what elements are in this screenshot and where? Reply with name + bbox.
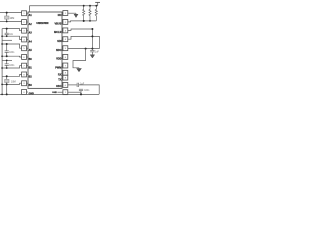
connector pin L5 [22, 46, 27, 51]
svg-text:VDD: VDD [56, 58, 61, 61]
right connector pin boxes [62, 11, 68, 95]
resistor RP1 [83, 6, 85, 21]
svg-text:SDO: SDO [56, 49, 61, 52]
resistor R2 bottom-left [6, 76, 8, 79]
capacitor C2 left [6, 44, 8, 51]
dots pullup rails [83, 5, 98, 22]
svg-text:10M: 10M [11, 81, 16, 84]
svg-text:UNKNOWN: UNKNOWN [36, 23, 48, 25]
capacitor C4 decoupling [91, 49, 93, 51]
power VCC bar [97, 2, 99, 5]
connector pin L3 [22, 28, 27, 33]
connector pin R11 [63, 90, 68, 95]
wire gnd loop from R5 rail [73, 49, 86, 68]
ground symbol loop [77, 68, 81, 72]
connector pin R10 [63, 82, 68, 87]
pin numbers left boxes [23, 13, 25, 94]
connector pin L10 [22, 90, 27, 95]
svg-text:TX: TX [58, 78, 62, 81]
svg-text:100n: 100n [9, 52, 15, 54]
capacitor C3 left [6, 60, 8, 64]
connector pin R3 [63, 28, 68, 33]
capacitor C6 [79, 88, 83, 90]
svg-text:SDI: SDI [57, 40, 61, 43]
wire R3 row [68, 29, 93, 49]
IC left pin labels [29, 14, 35, 96]
ground below C4 [90, 55, 94, 58]
wire top rail VCC net [30, 6, 98, 12]
svg-text:10M: 10M [10, 17, 15, 20]
wire R1 row to ground arrow [68, 12, 76, 14]
IC right pin labels [54, 14, 62, 88]
svg-text:NC: NC [58, 14, 62, 17]
resistor RP2 [89, 6, 91, 21]
svg-text:OSC: OSC [56, 85, 62, 88]
capacitor C1 left [6, 29, 8, 34]
wire bottom rail GND net [0, 93, 99, 95]
connector pin L7 [22, 63, 27, 68]
wire R9 row with series capacitor C5 [68, 84, 77, 86]
connector pin L8 [22, 72, 27, 77]
wire R2 pullup rail [68, 21, 97, 22]
ground arrow right row1 [74, 13, 78, 17]
op-amp U1 main IC body [28, 12, 62, 88]
connector pin L9 [22, 81, 27, 86]
connector pin R9 [63, 75, 68, 80]
svg-text:1uF: 1uF [95, 51, 100, 53]
wire R4 row [68, 36, 100, 48]
connector pin R7 [63, 63, 68, 68]
connector pin R2 [63, 19, 68, 24]
connector pin L2 [22, 20, 27, 25]
svg-text:GND: GND [29, 93, 35, 96]
connector pin L6 [22, 55, 27, 60]
svg-text:1uF: 1uF [80, 83, 85, 85]
svg-text:MCLR: MCLR [54, 31, 61, 34]
svg-text:100n: 100n [9, 65, 15, 67]
connector pin R4 [63, 37, 68, 42]
connector pin R1 [63, 11, 68, 16]
connector pin R8 [63, 70, 68, 75]
svg-text:GND: GND [52, 92, 57, 94]
resistor RP3 [95, 6, 97, 21]
left row wires with jogs [0, 13, 22, 85]
svg-text:100n: 100n [84, 90, 90, 92]
left bus wire [1, 29, 3, 95]
connector pin L1 [22, 11, 27, 16]
wire R5 row rail [68, 48, 100, 50]
svg-text:PWM: PWM [55, 66, 61, 69]
connector pin L4 [22, 37, 27, 42]
svg-text:RX: RX [58, 74, 62, 77]
pin numbers right boxes [65, 13, 67, 94]
svg-text:VBUS: VBUS [54, 23, 61, 26]
wire R10 to capacitor C6 [57, 91, 63, 93]
left connector pin boxes [22, 11, 28, 95]
resistor R1 top-left [6, 13, 8, 16]
connector pin R6 [63, 54, 68, 59]
junction dots left [1, 12, 7, 96]
connector pin R5 [63, 46, 68, 51]
